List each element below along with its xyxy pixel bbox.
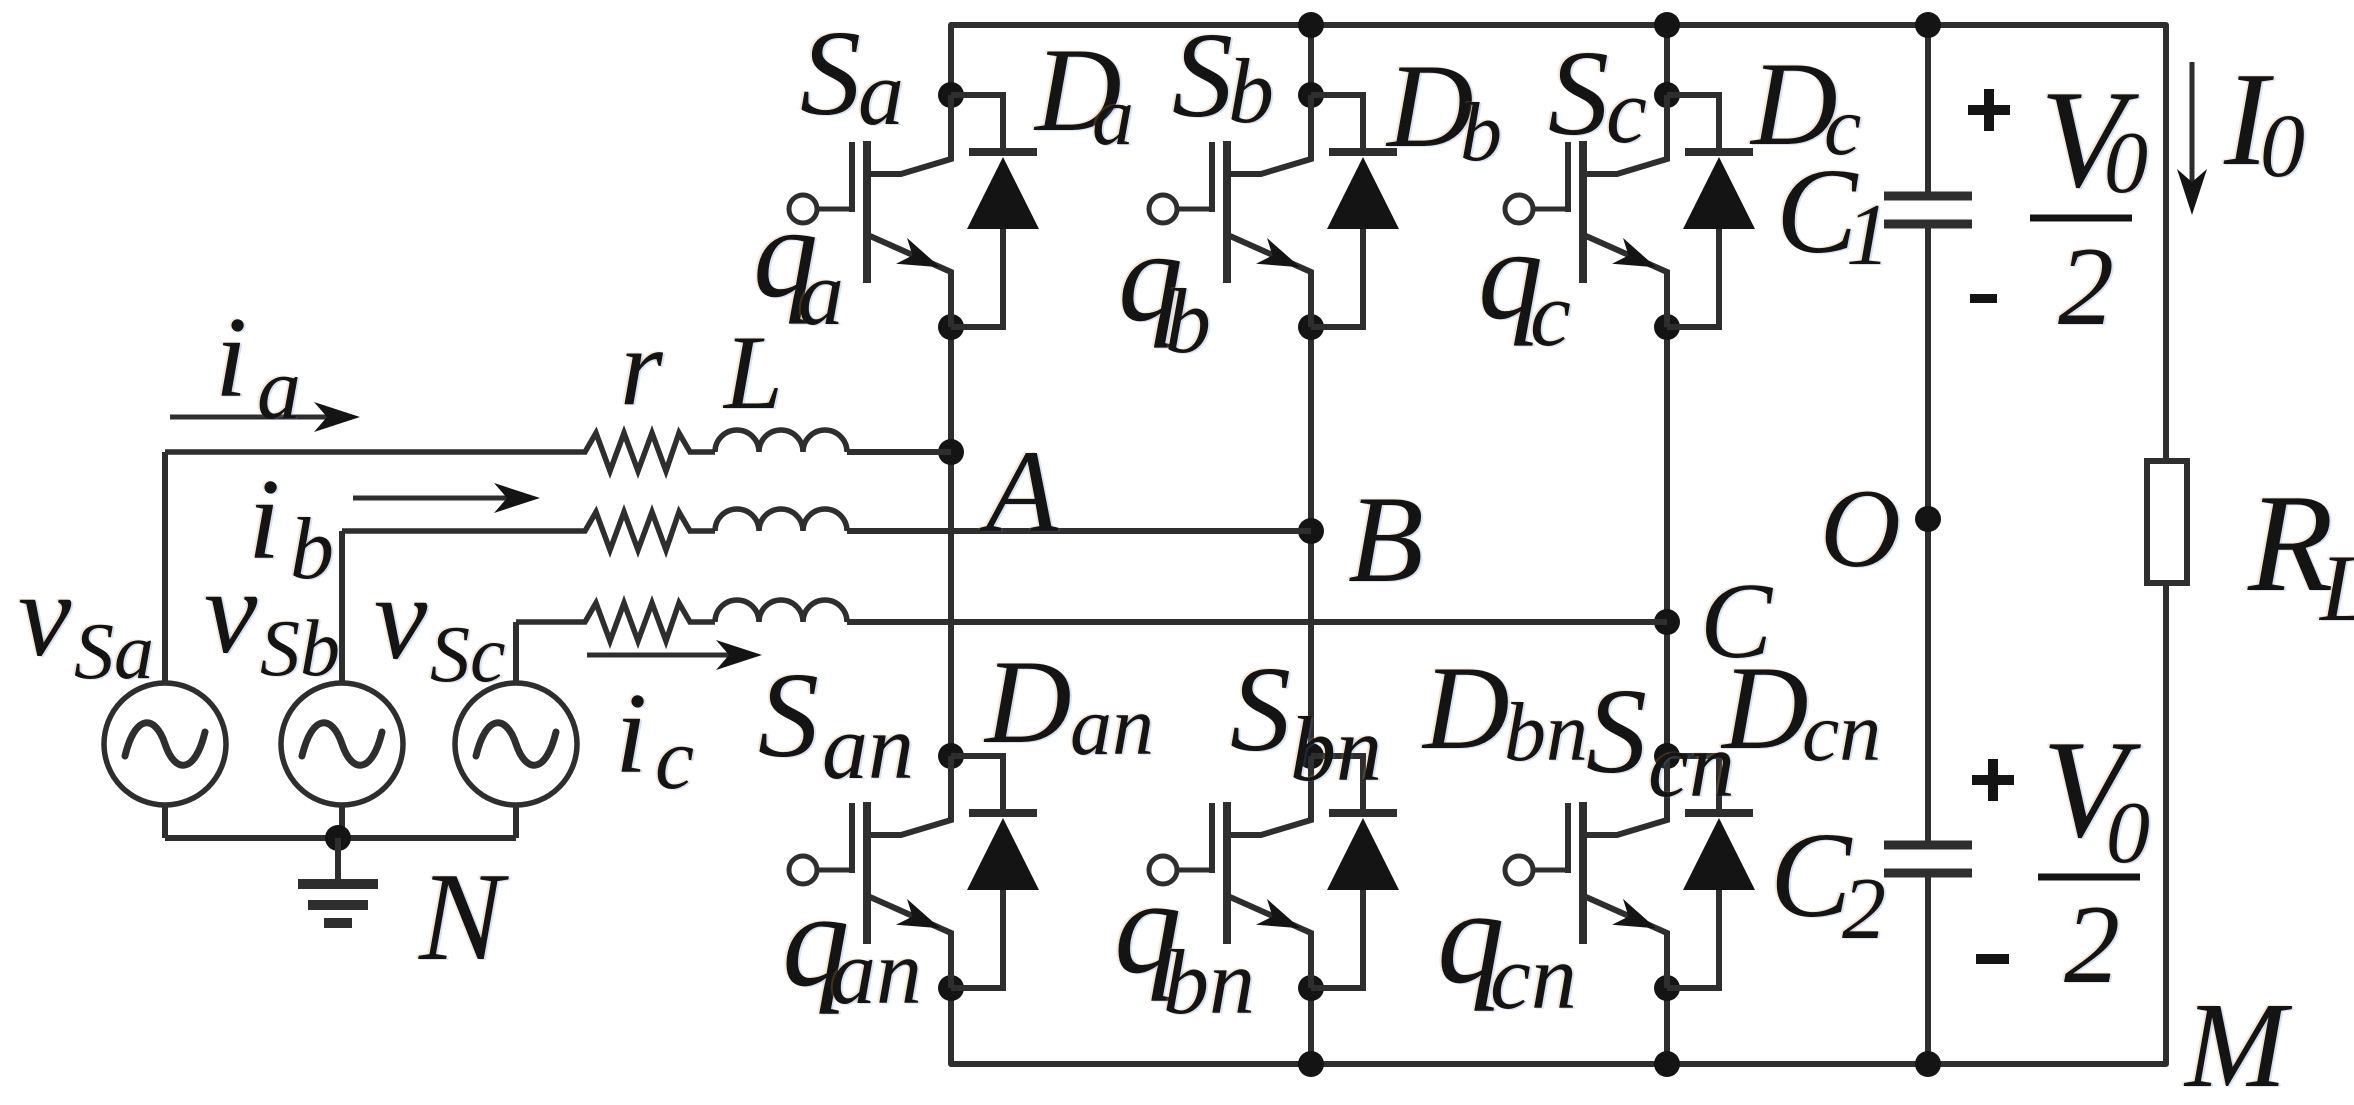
svg-text:cn: cn xyxy=(1802,686,1881,779)
svg-text:cn: cn xyxy=(1490,926,1577,1028)
svg-text:C: C xyxy=(1700,562,1774,681)
svg-text:b: b xyxy=(1228,40,1274,142)
svg-text:O: O xyxy=(1820,467,1901,591)
svg-text:2: 2 xyxy=(2064,883,2120,1007)
svg-text:1: 1 xyxy=(1846,187,1890,284)
svg-text:bn: bn xyxy=(1163,931,1255,1033)
svg-text:i: i xyxy=(215,294,247,422)
svg-text:c: c xyxy=(1530,263,1571,365)
svg-text:N: N xyxy=(418,848,509,987)
svg-text:B: B xyxy=(1348,471,1424,608)
svg-text:A: A xyxy=(979,426,1059,557)
svg-text:S: S xyxy=(1172,8,1233,143)
svg-text:Sa: Sa xyxy=(74,608,154,696)
svg-text:b: b xyxy=(1165,270,1211,372)
svg-text:S: S xyxy=(1230,642,1291,777)
svg-text:a: a xyxy=(858,42,904,144)
svg-text:b: b xyxy=(1460,86,1502,179)
svg-text:Sb: Sb xyxy=(260,605,340,693)
svg-text:2: 2 xyxy=(2058,225,2114,349)
svg-text:v: v xyxy=(18,548,72,681)
svg-text:c: c xyxy=(655,711,694,808)
svg-text:S: S xyxy=(758,648,819,783)
svg-text:c: c xyxy=(1606,60,1647,162)
svg-text:a: a xyxy=(1092,70,1134,163)
svg-text:bn: bn xyxy=(1290,698,1382,800)
svg-text:r: r xyxy=(620,306,664,428)
svg-text:S: S xyxy=(800,6,861,141)
svg-text:bn: bn xyxy=(1504,686,1588,779)
svg-text:L: L xyxy=(722,314,783,431)
svg-text:0: 0 xyxy=(2260,97,2305,196)
svg-text:0: 0 xyxy=(2104,115,2148,212)
svg-text:D: D xyxy=(983,635,1072,768)
svg-text:an: an xyxy=(830,921,922,1023)
svg-text:D: D xyxy=(1421,641,1510,774)
svg-text:a: a xyxy=(798,242,844,344)
svg-text:b: b xyxy=(290,501,334,598)
svg-text:v: v xyxy=(374,551,428,684)
svg-text:an: an xyxy=(1070,680,1154,773)
svg-text:C: C xyxy=(1770,808,1853,943)
svg-text:Sc: Sc xyxy=(430,611,506,699)
svg-text:0: 0 xyxy=(2106,785,2150,882)
svg-text:S: S xyxy=(1548,26,1609,161)
svg-text:M: M xyxy=(2183,978,2293,1100)
svg-text:i: i xyxy=(248,456,280,584)
svg-text:L: L xyxy=(2318,535,2354,641)
svg-text:S: S xyxy=(1586,664,1647,799)
svg-text:2: 2 xyxy=(1842,861,1886,958)
svg-text:a: a xyxy=(257,341,301,438)
svg-text:an: an xyxy=(822,696,914,798)
svg-text:i: i xyxy=(615,670,647,798)
